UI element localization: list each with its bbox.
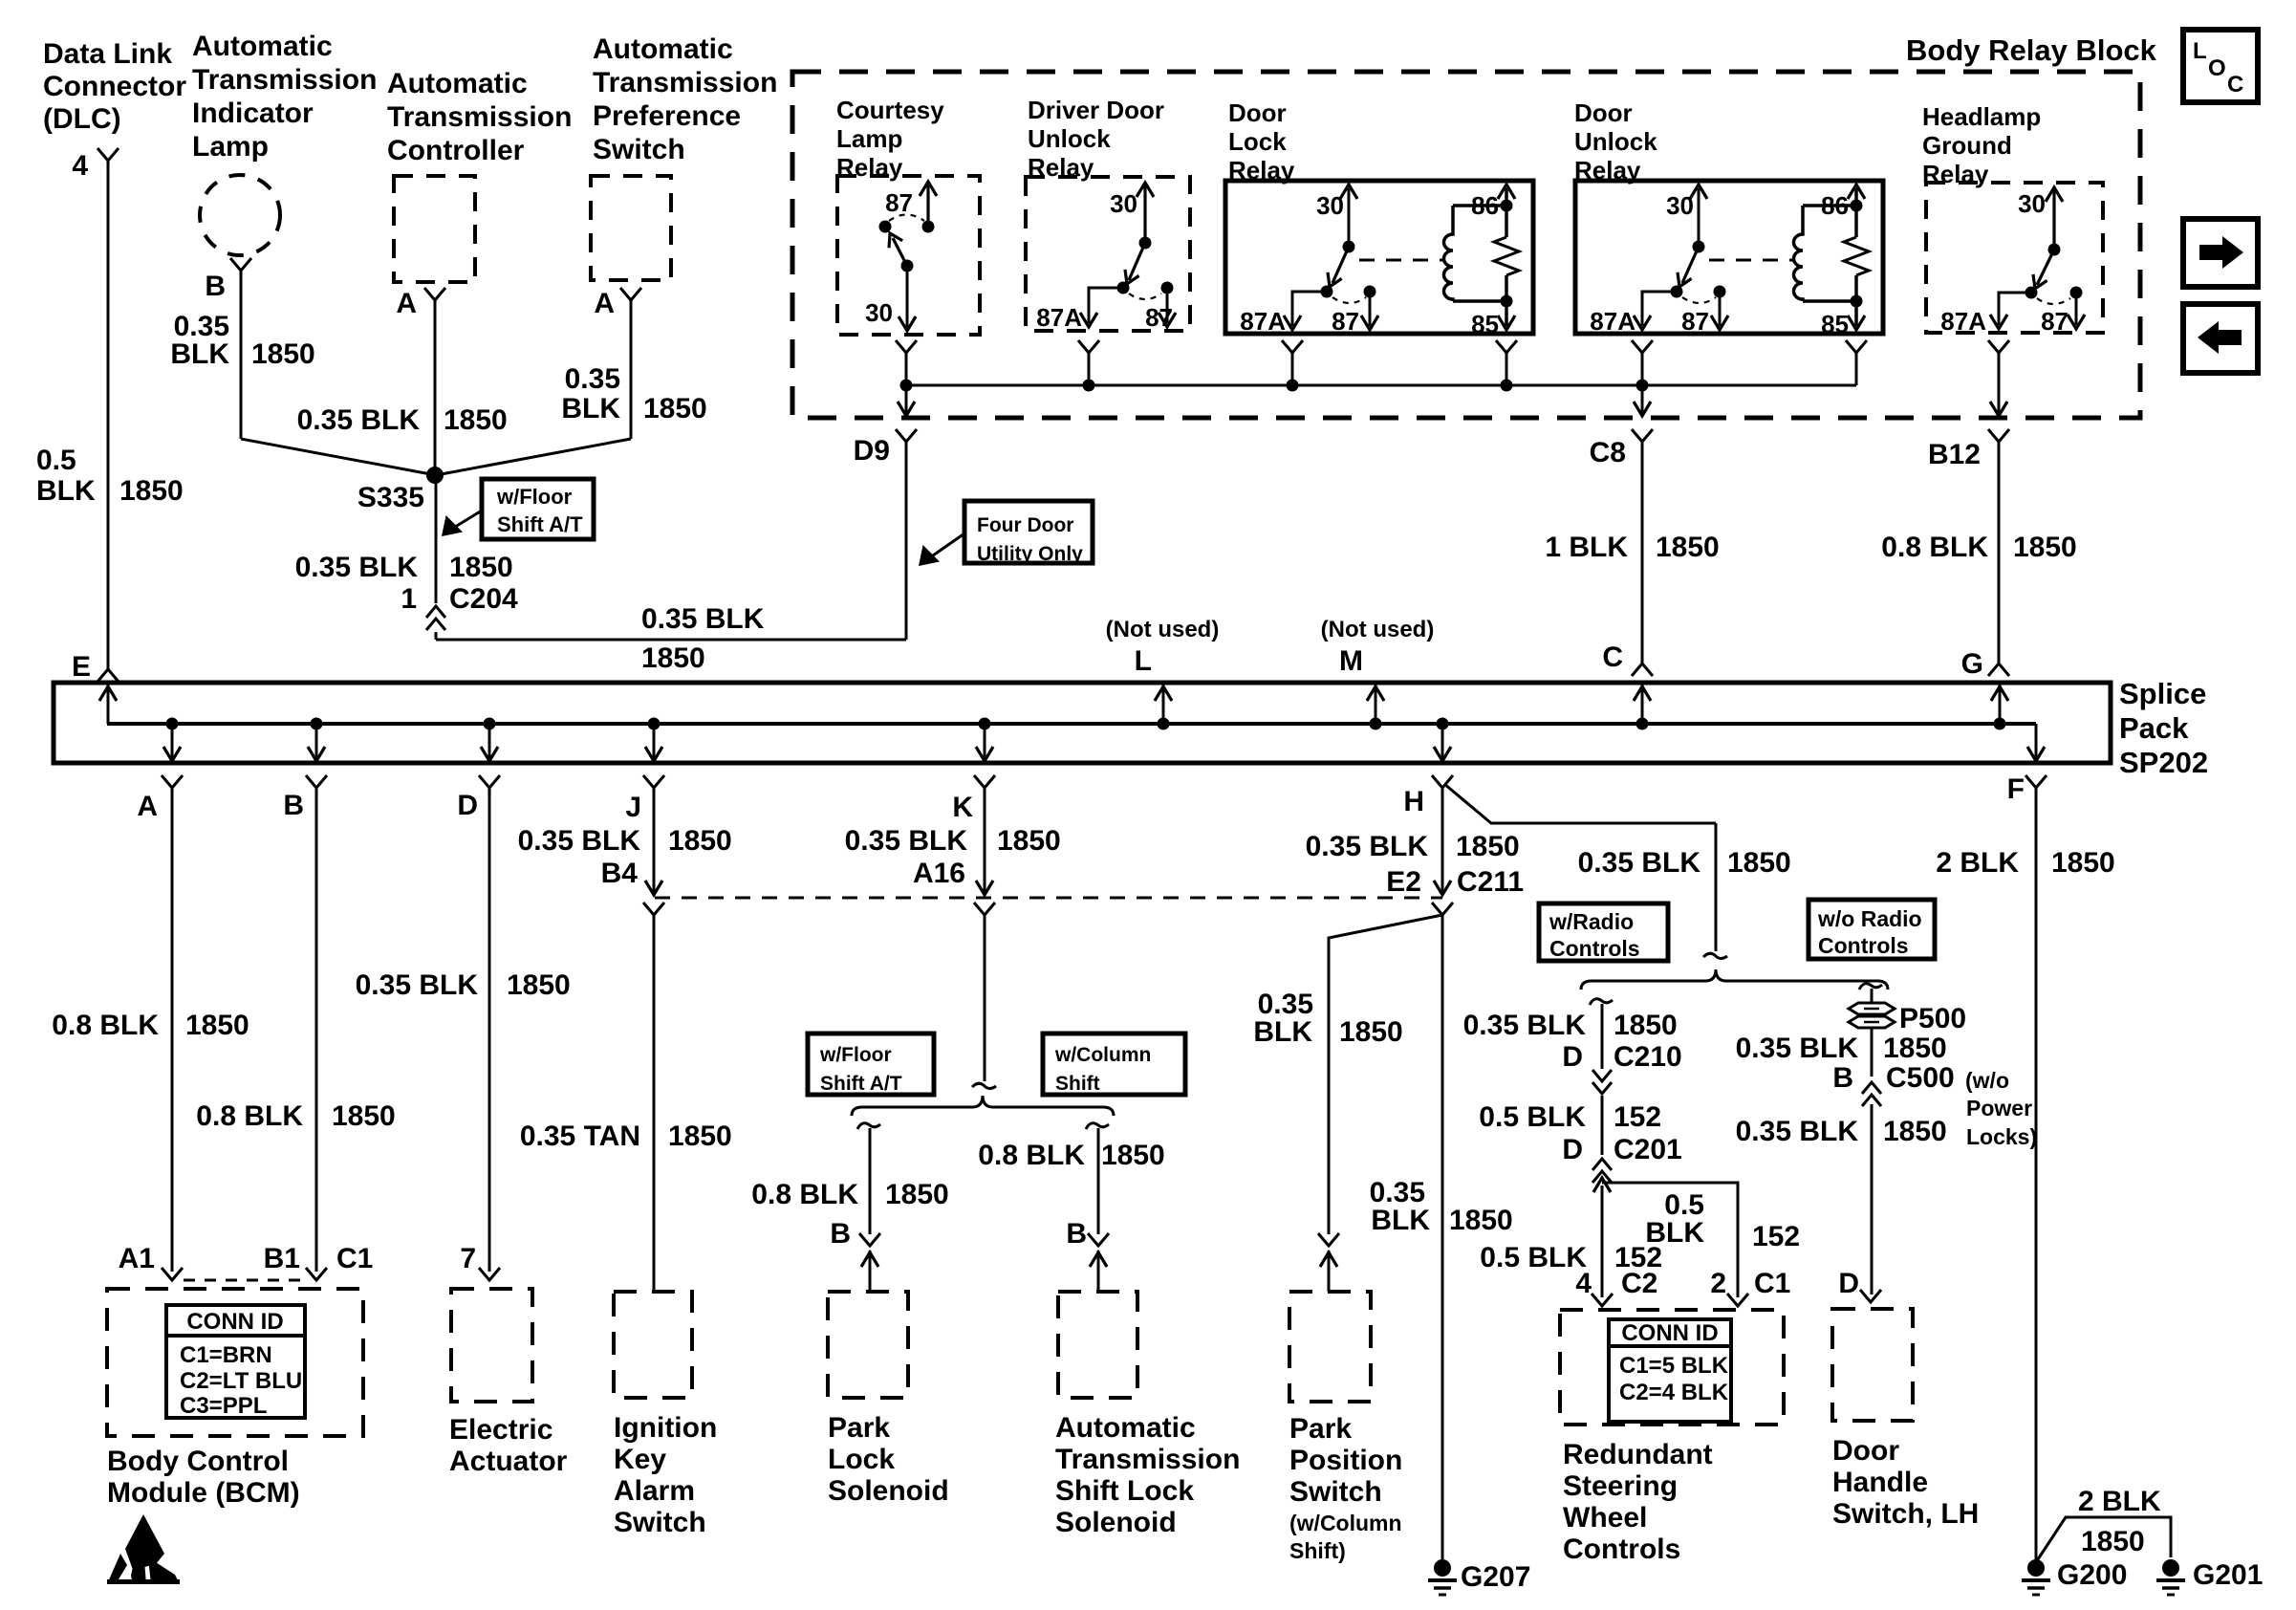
svg-text:(w/o: (w/o (1965, 1068, 2009, 1093)
svg-text:152: 152 (1614, 1101, 1661, 1133)
svg-text:Shift A/T: Shift A/T (820, 1073, 902, 1095)
svg-text:BLK: BLK (561, 393, 620, 424)
svg-text:1850: 1850 (1614, 1010, 1678, 1041)
svg-text:S335: S335 (357, 482, 424, 513)
svg-text:Actuator: Actuator (449, 1446, 568, 1477)
svg-text:B: B (1066, 1218, 1087, 1250)
svg-text:Unlock: Unlock (1574, 127, 1657, 156)
svg-text:CONN ID: CONN ID (1621, 1320, 1718, 1346)
svg-text:A: A (594, 288, 615, 319)
svg-text:Controller: Controller (387, 135, 525, 166)
svg-text:B: B (1832, 1062, 1853, 1094)
svg-text:BLK: BLK (36, 475, 96, 507)
svg-text:C500: C500 (1886, 1062, 1955, 1094)
svg-text:CONN ID: CONN ID (186, 1309, 283, 1335)
svg-text:Locks): Locks) (1966, 1124, 2037, 1149)
svg-text:Unlock: Unlock (1028, 124, 1111, 153)
svg-text:C2: C2 (1621, 1268, 1657, 1299)
svg-text:87A: 87A (1240, 307, 1286, 336)
svg-text:30: 30 (1110, 189, 1137, 218)
svg-text:G200: G200 (2057, 1559, 2127, 1591)
svg-text:Wheel: Wheel (1563, 1502, 1647, 1534)
svg-text:0.8 BLK: 0.8 BLK (978, 1140, 1085, 1171)
svg-text:87: 87 (1332, 307, 1359, 336)
svg-text:Controls: Controls (1818, 933, 1909, 958)
svg-text:1850: 1850 (1727, 847, 1791, 879)
svg-text:152: 152 (1752, 1221, 1800, 1252)
svg-text:Switch: Switch (614, 1507, 706, 1538)
svg-text:Data Link: Data Link (43, 38, 172, 70)
svg-text:Electric: Electric (449, 1414, 552, 1446)
svg-text:1850: 1850 (119, 475, 184, 507)
svg-text:0.5 BLK: 0.5 BLK (1479, 1101, 1586, 1133)
svg-text:Switch: Switch (1289, 1476, 1382, 1508)
svg-text:1 BLK: 1 BLK (1545, 532, 1628, 563)
svg-text:D: D (1562, 1041, 1583, 1073)
svg-text:1850: 1850 (997, 825, 1061, 857)
svg-text:0.35 BLK: 0.35 BLK (1736, 1116, 1859, 1147)
svg-text:1850: 1850 (643, 393, 707, 424)
svg-text:Four Door: Four Door (977, 514, 1073, 536)
svg-text:J: J (625, 792, 641, 823)
svg-text:Automatic: Automatic (192, 31, 333, 62)
svg-text:Shift: Shift (1055, 1073, 1100, 1095)
svg-text:Lock: Lock (828, 1444, 895, 1475)
svg-text:30: 30 (1316, 191, 1344, 220)
svg-text:Transmission: Transmission (1055, 1444, 1240, 1475)
svg-text:C204: C204 (449, 583, 518, 615)
svg-text:1850: 1850 (668, 1120, 732, 1152)
svg-text:1850: 1850 (1101, 1140, 1165, 1171)
svg-text:1850: 1850 (2051, 847, 2115, 879)
svg-text:0.8 BLK: 0.8 BLK (52, 1010, 159, 1041)
svg-text:0.35 BLK: 0.35 BLK (1306, 831, 1429, 862)
svg-text:Door: Door (1574, 98, 1633, 127)
svg-text:Door: Door (1228, 98, 1287, 127)
svg-text:Switch, LH: Switch, LH (1832, 1498, 1979, 1530)
svg-text:0.35 BLK: 0.35 BLK (518, 825, 641, 857)
svg-text:Automatic: Automatic (387, 68, 528, 99)
svg-text:87: 87 (1681, 307, 1709, 336)
svg-text:1850: 1850 (2081, 1526, 2145, 1557)
svg-text:0.8 BLK: 0.8 BLK (196, 1100, 303, 1132)
svg-text:Power: Power (1966, 1096, 2032, 1120)
svg-text:Shift Lock: Shift Lock (1055, 1475, 1194, 1507)
svg-text:Body Relay Block: Body Relay Block (1906, 33, 2157, 67)
svg-text:C1: C1 (1754, 1268, 1790, 1299)
svg-text:P500: P500 (1899, 1003, 1966, 1034)
svg-text:w/Floor: w/Floor (496, 485, 573, 509)
svg-text:Driver Door: Driver Door (1028, 96, 1164, 124)
svg-text:Splice: Splice (2119, 677, 2206, 710)
svg-text:SP202: SP202 (2119, 746, 2208, 779)
svg-text:G: G (1961, 648, 1983, 680)
svg-text:Module (BCM): Module (BCM) (107, 1477, 300, 1509)
svg-text:Utility Only: Utility Only (977, 543, 1083, 565)
svg-text:0.35 BLK: 0.35 BLK (1578, 847, 1701, 879)
svg-text:w/Radio: w/Radio (1549, 909, 1634, 934)
svg-text:85: 85 (1821, 310, 1849, 338)
svg-text:BLK: BLK (1253, 1016, 1312, 1048)
svg-text:D9: D9 (854, 435, 890, 467)
svg-text:D: D (1562, 1134, 1583, 1165)
svg-text:4: 4 (72, 150, 88, 182)
svg-text:E2: E2 (1386, 866, 1421, 898)
svg-text:30: 30 (865, 298, 893, 327)
svg-text:(DLC): (DLC) (43, 103, 121, 135)
svg-text:Solenoid: Solenoid (828, 1475, 949, 1507)
svg-text:0.5 BLK: 0.5 BLK (1480, 1242, 1587, 1273)
svg-text:C211: C211 (1457, 866, 1524, 898)
svg-text:1850: 1850 (1883, 1033, 1947, 1064)
svg-text:Solenoid: Solenoid (1055, 1507, 1177, 1538)
svg-text:Pack: Pack (2119, 711, 2189, 745)
svg-text:Park: Park (1289, 1413, 1352, 1445)
svg-text:Lamp: Lamp (836, 124, 902, 153)
svg-text:1850: 1850 (668, 825, 732, 857)
svg-text:D: D (1838, 1268, 1859, 1299)
svg-text:Preference: Preference (593, 100, 741, 132)
svg-text:B: B (283, 790, 304, 821)
svg-text:w/o Radio: w/o Radio (1817, 906, 1922, 931)
svg-text:C: C (2227, 72, 2243, 98)
svg-text:1: 1 (401, 583, 417, 615)
svg-text:0.35 BLK: 0.35 BLK (295, 552, 419, 583)
svg-text:Automatic: Automatic (1055, 1412, 1196, 1444)
svg-text:0.35 BLK: 0.35 BLK (845, 825, 968, 857)
svg-text:BLK: BLK (1371, 1205, 1430, 1236)
svg-text:G201: G201 (2193, 1559, 2263, 1591)
svg-text:87A: 87A (1590, 307, 1635, 336)
svg-text:87: 87 (1145, 303, 1173, 332)
svg-text:0.8 BLK: 0.8 BLK (1881, 532, 1988, 563)
svg-text:D: D (457, 790, 478, 821)
svg-text:4: 4 (1575, 1268, 1592, 1299)
svg-text:86: 86 (1821, 191, 1849, 220)
svg-text:M: M (1339, 645, 1363, 677)
svg-text:B4: B4 (601, 858, 639, 889)
svg-text:1850: 1850 (332, 1100, 396, 1132)
svg-text:C3=PPL: C3=PPL (180, 1393, 267, 1419)
svg-text:0.35 BLK: 0.35 BLK (641, 603, 765, 635)
svg-text:C2=LT BLU: C2=LT BLU (180, 1368, 302, 1394)
svg-text:BLK: BLK (170, 338, 229, 370)
svg-text:E: E (72, 651, 91, 683)
svg-text:1850: 1850 (641, 642, 705, 674)
svg-text:1850: 1850 (251, 338, 315, 370)
svg-text:Controls: Controls (1563, 1534, 1680, 1565)
svg-text:87A: 87A (1036, 303, 1082, 332)
svg-text:Lock: Lock (1228, 127, 1287, 156)
svg-text:L: L (2193, 38, 2207, 64)
svg-text:2 BLK: 2 BLK (1936, 847, 2019, 879)
svg-text:0.35 BLK: 0.35 BLK (1463, 1010, 1587, 1041)
svg-text:G207: G207 (1461, 1561, 1530, 1593)
svg-text:1850: 1850 (1339, 1016, 1403, 1048)
svg-text:0.35 BLK: 0.35 BLK (356, 969, 479, 1001)
svg-text:Ignition: Ignition (614, 1412, 717, 1444)
svg-text:F: F (2007, 773, 2025, 805)
svg-text:Steering: Steering (1563, 1470, 1678, 1502)
svg-text:Position: Position (1289, 1445, 1402, 1476)
svg-text:Lamp: Lamp (192, 131, 269, 163)
svg-text:Controls: Controls (1549, 936, 1640, 961)
svg-text:C1=5 BLK: C1=5 BLK (1619, 1353, 1729, 1379)
svg-text:0.35 BLK: 0.35 BLK (1736, 1033, 1859, 1064)
svg-text:w/Floor: w/Floor (819, 1044, 892, 1066)
svg-text:1850: 1850 (449, 552, 513, 583)
svg-text:C: C (1602, 642, 1623, 673)
svg-text:C1=BRN: C1=BRN (180, 1342, 272, 1368)
svg-text:2: 2 (1710, 1268, 1726, 1299)
svg-text:85: 85 (1471, 310, 1499, 338)
svg-text:1850: 1850 (885, 1179, 949, 1210)
svg-text:C210: C210 (1614, 1041, 1682, 1073)
svg-text:(Not used): (Not used) (1321, 617, 1435, 642)
svg-text:L: L (1135, 645, 1152, 677)
svg-text:(Not used): (Not used) (1106, 617, 1220, 642)
svg-text:A: A (137, 791, 158, 822)
svg-text:Door: Door (1832, 1435, 1899, 1467)
svg-text:1850: 1850 (507, 969, 571, 1001)
svg-text:Park: Park (828, 1412, 890, 1444)
svg-text:B1: B1 (264, 1243, 300, 1274)
svg-text:Alarm: Alarm (614, 1475, 695, 1507)
svg-text:Redundant: Redundant (1563, 1439, 1713, 1470)
svg-text:Headlamp: Headlamp (1922, 102, 2041, 131)
svg-text:Transmission: Transmission (593, 67, 777, 98)
svg-text:A1: A1 (119, 1243, 155, 1274)
svg-text:B: B (205, 271, 226, 302)
svg-text:Handle: Handle (1832, 1467, 1928, 1498)
svg-text:Courtesy: Courtesy (836, 96, 944, 124)
svg-text:30: 30 (1666, 191, 1694, 220)
svg-text:2 BLK: 2 BLK (2078, 1486, 2161, 1517)
svg-text:0.35 TAN: 0.35 TAN (520, 1120, 640, 1152)
svg-text:1850: 1850 (1883, 1116, 1947, 1147)
svg-text:Connector: Connector (43, 71, 186, 102)
svg-text:7: 7 (460, 1243, 476, 1274)
svg-text:A16: A16 (913, 858, 965, 889)
svg-text:C8: C8 (1590, 437, 1626, 468)
svg-text:w/Column: w/Column (1054, 1044, 1151, 1066)
svg-text:Indicator: Indicator (192, 98, 314, 129)
svg-text:1850: 1850 (2013, 532, 2077, 563)
svg-text:Shift A/T: Shift A/T (497, 512, 583, 536)
svg-text:1850: 1850 (1656, 532, 1720, 563)
svg-text:Shift): Shift) (1289, 1538, 1346, 1563)
svg-text:87: 87 (2041, 307, 2069, 336)
svg-text:1850: 1850 (1449, 1205, 1513, 1236)
svg-text:(w/Column: (w/Column (1289, 1511, 1402, 1535)
svg-text:C1: C1 (336, 1243, 373, 1274)
svg-text:K: K (952, 792, 973, 823)
svg-text:A: A (396, 288, 417, 319)
svg-text:C201: C201 (1614, 1134, 1682, 1165)
svg-text:Transmission: Transmission (192, 64, 377, 96)
svg-text:B12: B12 (1928, 439, 1981, 470)
svg-text:Transmission: Transmission (387, 101, 572, 133)
svg-text:0.5: 0.5 (36, 445, 76, 476)
svg-text:86: 86 (1471, 191, 1499, 220)
svg-text:0.35: 0.35 (565, 363, 620, 395)
svg-text:Automatic: Automatic (593, 33, 733, 65)
svg-text:0.35 BLK: 0.35 BLK (297, 404, 421, 436)
svg-text:0.8 BLK: 0.8 BLK (751, 1179, 858, 1210)
svg-text:Switch: Switch (593, 134, 685, 165)
svg-text:1850: 1850 (1456, 831, 1520, 862)
svg-text:1850: 1850 (444, 404, 508, 436)
svg-text:H: H (1403, 786, 1424, 817)
svg-text:1850: 1850 (185, 1010, 249, 1041)
svg-text:30: 30 (2018, 189, 2046, 218)
svg-text:O: O (2208, 55, 2226, 81)
svg-text:Key: Key (614, 1444, 666, 1475)
svg-text:87A: 87A (1940, 307, 1986, 336)
svg-text:B: B (830, 1218, 851, 1250)
svg-text:Ground: Ground (1922, 131, 2012, 160)
svg-text:C2=4 BLK: C2=4 BLK (1619, 1380, 1729, 1405)
svg-text:87: 87 (885, 188, 913, 217)
svg-text:Body Control: Body Control (107, 1446, 289, 1477)
